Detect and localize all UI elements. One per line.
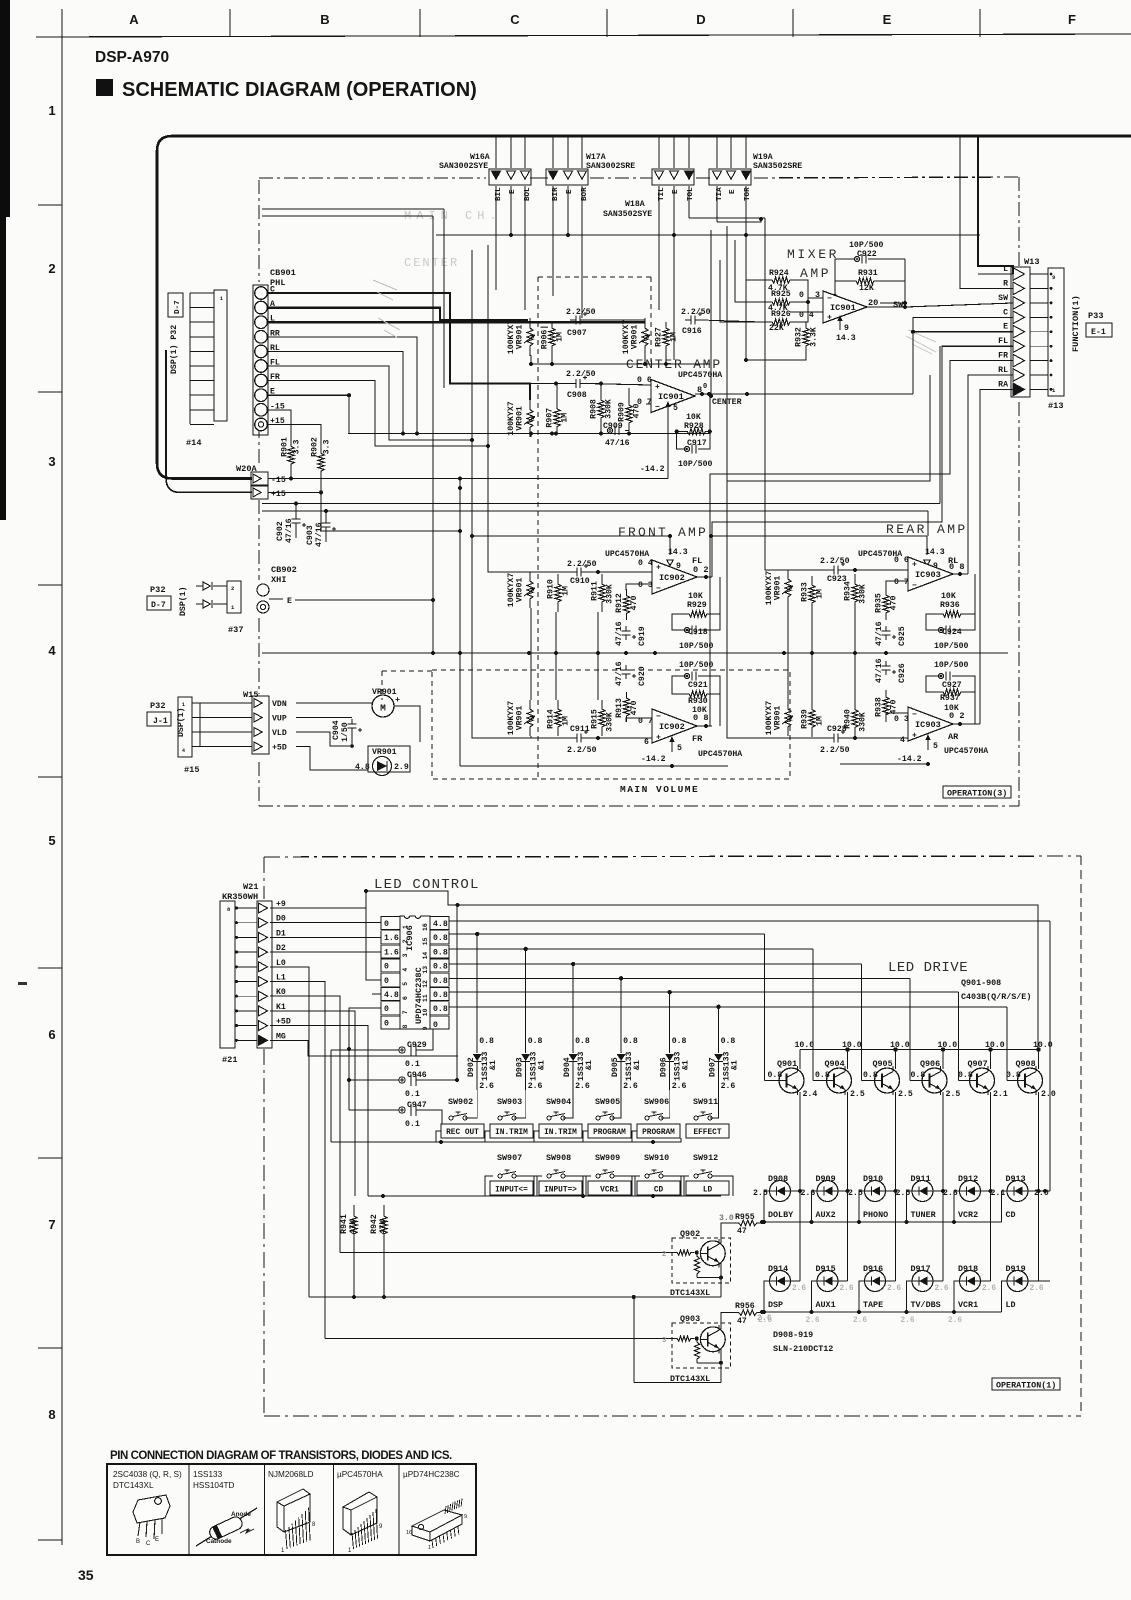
wire rear pot bottoms [787, 606, 789, 653]
dashed box MAIN VOLUME [432, 670, 790, 779]
svg-text:16: 16 [406, 1530, 412, 1536]
wire Q902 collector [721, 1223, 734, 1243]
svg-text:+: + [655, 383, 660, 392]
resistor R910 1M [555, 574, 561, 612]
svg-text:Q908: Q908 [1016, 1059, 1036, 1069]
svg-text:#13: #13 [1048, 401, 1063, 411]
wire +5D/MG bus verticals [456, 905, 458, 1080]
svg-text:2.2/50: 2.2/50 [567, 745, 597, 755]
svg-text:6: 6 [644, 738, 649, 747]
svg-text:0.8: 0.8 [433, 991, 448, 1000]
svg-text:0 4: 0 4 [638, 559, 653, 568]
capacitor C927 10P/500 [938, 673, 943, 678]
wire -15/+15 supply branch [166, 350, 252, 492]
svg-text:DSP(1): DSP(1) [176, 708, 186, 737]
svg-text:SW910: SW910 [644, 1153, 669, 1163]
svg-text:VR901: VR901 [516, 578, 525, 603]
svg-text:330K: 330K [605, 399, 614, 419]
wire rear amp RL [788, 569, 828, 571]
svg-text:R912: R912 [615, 593, 624, 613]
label P32 D-7 (to DSP(1)) [168, 293, 183, 317]
wire RL output to W13 [968, 375, 1013, 574]
svg-text:UPC4570HA: UPC4570HA [605, 550, 649, 559]
svg-text:47K: 47K [349, 1220, 358, 1235]
wire center output to W13 C/E [913, 317, 1013, 394]
svg-text:2.2/50: 2.2/50 [567, 559, 597, 569]
svg-text:SW909: SW909 [595, 1153, 620, 1163]
wire IC906 output buses [449, 933, 765, 935]
svg-text:47/16: 47/16 [605, 438, 630, 448]
svg-text:47/16: 47/16 [874, 621, 884, 646]
capacitor C911 2.2/50 [571, 737, 577, 739]
svg-text:&1: &1 [538, 1060, 547, 1070]
svg-text:10.0: 10.0 [842, 1041, 862, 1050]
svg-text:R931: R931 [858, 269, 878, 278]
svg-text:330K: 330K [606, 584, 615, 604]
svg-text:3: 3 [402, 953, 409, 957]
svg-text:RL: RL [998, 366, 1008, 375]
svg-text:DTC143XL: DTC143XL [113, 1481, 154, 1490]
svg-text:CB901: CB901 [270, 268, 296, 278]
pot VR901 100KYX7 (rear L) [785, 570, 791, 606]
svg-text:VDN: VDN [272, 700, 287, 709]
svg-text:0: 0 [384, 1005, 389, 1014]
wire emitter rail [800, 1049, 1038, 1051]
svg-text:Q905: Q905 [873, 1059, 893, 1069]
wire -15 / -14.2 run [268, 478, 668, 480]
wire verticals to rear section [673, 235, 675, 360]
svg-text:2.1: 2.1 [993, 1090, 1008, 1099]
svg-text:470: 470 [890, 596, 899, 611]
svg-text:2SC4038 (Q, R, S): 2SC4038 (Q, R, S) [113, 1470, 182, 1479]
svg-text:NJM2068LD: NJM2068LD [268, 1470, 314, 1479]
svg-text:2.6: 2.6 [479, 1082, 494, 1091]
svg-text:0 3: 0 3 [638, 581, 653, 590]
svg-text:2.4: 2.4 [803, 1090, 818, 1099]
svg-text:2.5: 2.5 [898, 1090, 913, 1099]
svg-text:2: 2 [48, 261, 55, 276]
svg-text:0: 0 [384, 977, 389, 986]
svg-text:SLN-210DCT12: SLN-210DCT12 [773, 1344, 833, 1354]
wire 4.8 line from IC906 pin16 [449, 920, 1050, 922]
svg-text:0 6: 0 6 [894, 556, 909, 565]
svg-text:E: E [672, 189, 680, 194]
resistor Q903 pull-down [694, 1339, 699, 1363]
svg-text:E: E [729, 189, 737, 194]
svg-text:D: D [696, 12, 705, 27]
svg-text:10.0: 10.0 [985, 1041, 1005, 1050]
svg-text:&1: &1 [585, 1060, 594, 1070]
svg-text:VCR2: VCR2 [958, 1210, 978, 1220]
svg-text:F: F [1068, 12, 1076, 27]
svg-text:EFFECT: EFFECT [693, 1129, 721, 1137]
svg-text:−: − [912, 711, 917, 720]
svg-text:C911: C911 [570, 725, 590, 734]
svg-text:11: 11 [422, 994, 429, 1002]
svg-text:C947: C947 [407, 1101, 427, 1110]
wire long cross runs upper [262, 208, 444, 210]
svg-text:VCR1: VCR1 [600, 1187, 619, 1195]
svg-text:VR901: VR901 [372, 748, 397, 757]
svg-text:#14: #14 [186, 438, 201, 448]
svg-text:2.6: 2.6 [982, 1285, 996, 1293]
svg-text:UPC4570HA: UPC4570HA [698, 750, 742, 759]
IC906 right pin boxes [430, 917, 449, 930]
svg-text:W19A: W19A [753, 153, 773, 162]
svg-text:0: 0 [799, 291, 804, 300]
svg-text:VR901: VR901 [516, 706, 525, 731]
svg-text:3.3: 3.3 [323, 440, 332, 455]
svg-text:D904: D904 [563, 1057, 572, 1077]
wire D908 row cathode bus [764, 1191, 770, 1222]
svg-text:C922: C922 [857, 250, 877, 259]
capacitor C902 47/16 [295, 515, 297, 519]
svg-text:Q902: Q902 [680, 1229, 700, 1239]
resistor R907 1M [554, 402, 560, 434]
svg-text:C: C [510, 12, 520, 27]
svg-text:SW911: SW911 [693, 1097, 718, 1107]
svg-text:REC OUT: REC OUT [446, 1129, 479, 1137]
svg-text:R926: R926 [771, 310, 791, 319]
svg-text:2.6: 2.6 [887, 1285, 901, 1293]
svg-text:C904: C904 [332, 720, 341, 740]
svg-text:2.5: 2.5 [753, 1189, 768, 1198]
svg-text:0: 0 [433, 1021, 438, 1030]
svg-text:R935: R935 [874, 593, 883, 613]
svg-text:0: 0 [384, 963, 389, 972]
svg-text:R: R [1003, 279, 1008, 288]
svg-text:1: 1 [182, 702, 185, 708]
diode D902 1SS133 [476, 934, 478, 1053]
svg-text:P32: P32 [150, 585, 165, 595]
svg-text:E: E [287, 597, 292, 606]
svg-text:P32: P32 [150, 701, 165, 711]
svg-text:1M: 1M [562, 586, 571, 596]
svg-text:10P/500: 10P/500 [679, 660, 713, 670]
svg-text:2.6: 2.6 [1030, 1285, 1044, 1293]
wire CB901 C run (to center amp row2) [268, 293, 531, 384]
wire center output run [695, 393, 913, 395]
resistor R942 47K [381, 1205, 387, 1245]
wire mixer input feeds [746, 235, 762, 280]
svg-text:E: E [155, 1537, 159, 1543]
diode D903 1SS133 [525, 949, 527, 1053]
wire LED control row buses [309, 1296, 634, 1298]
pot VR901 100KYX7 (center L) [527, 318, 533, 356]
svg-text:D903: D903 [516, 1057, 525, 1077]
svg-text:CB902: CB902 [271, 565, 297, 575]
svg-text:-15: -15 [271, 476, 286, 485]
svg-text:330K: 330K [859, 712, 868, 732]
svg-text:4: 4 [402, 968, 409, 972]
svg-text:R937: R937 [940, 694, 960, 703]
svg-text:CENTER: CENTER [404, 256, 459, 270]
op-amp IC903 (RL) [908, 557, 953, 591]
svg-text:IC901: IC901 [658, 392, 684, 402]
svg-text:C920: C920 [638, 666, 647, 686]
svg-text:0.1: 0.1 [405, 1090, 420, 1099]
svg-text:R939: R939 [800, 709, 809, 729]
svg-text:14: 14 [422, 952, 429, 960]
svg-text:10K: 10K [941, 592, 956, 601]
wire IC906 left lower pins [366, 908, 381, 980]
svg-text:0.8: 0.8 [479, 1037, 494, 1046]
svg-text:C907: C907 [567, 329, 587, 338]
wire RA output to W13 [980, 389, 1013, 724]
svg-text:SW: SW [998, 294, 1008, 303]
op-amp IC902 (FL) [652, 560, 697, 594]
resistor Q902 pull-down [694, 1253, 699, 1278]
power arrow rear 9 [924, 560, 930, 566]
resistor R932 3.3K [803, 322, 809, 352]
svg-text:LD: LD [703, 1187, 713, 1195]
svg-text:2: 2 [402, 939, 409, 943]
svg-text:A: A [129, 12, 139, 27]
wire front amp input feeds [417, 434, 508, 572]
capacitor C925 47/16 [885, 626, 887, 631]
svg-text:TOL: TOL [687, 187, 695, 201]
svg-text:&1: &1 [731, 1060, 740, 1070]
svg-text:FR: FR [692, 734, 703, 744]
svg-text:2.6: 2.6 [935, 1285, 949, 1293]
svg-text:2.5: 2.5 [850, 1090, 865, 1099]
svg-text:VCR1: VCR1 [958, 1300, 978, 1310]
svg-text:UPC4570HA: UPC4570HA [944, 747, 988, 756]
svg-text:3.3: 3.3 [293, 440, 302, 455]
power arrow front 9 [667, 560, 673, 566]
capacitor C947 0.1 [399, 1107, 405, 1113]
wire mixer feedback [835, 259, 845, 281]
svg-text:R932: R932 [794, 327, 803, 347]
connector W19A (right half) [709, 169, 751, 185]
svg-text:Q901-908: Q901-908 [961, 978, 1001, 988]
svg-text:5: 5 [933, 742, 938, 751]
wire front pot bottoms [555, 612, 557, 653]
svg-text:SW903: SW903 [497, 1097, 522, 1107]
svg-text:C: C [146, 1541, 151, 1547]
svg-text:#21: #21 [222, 1055, 237, 1065]
svg-text:0.8: 0.8 [721, 1037, 736, 1046]
svg-text:VR901: VR901 [516, 406, 525, 431]
svg-text:C902: C902 [276, 521, 285, 541]
svg-text:FRONT AMP: FRONT AMP [618, 525, 708, 540]
svg-text:0.8: 0.8 [528, 1037, 543, 1046]
svg-text:VR901: VR901 [774, 706, 783, 731]
svg-text:SW908: SW908 [546, 1153, 571, 1163]
svg-text:10.0: 10.0 [1033, 1041, 1053, 1050]
svg-text:10K: 10K [686, 413, 701, 422]
svg-text:0 6: 0 6 [637, 376, 652, 385]
svg-text:UPC4570HA: UPC4570HA [678, 371, 722, 380]
svg-text:PROGRAM: PROGRAM [593, 1129, 626, 1137]
svg-text:+5D: +5D [272, 744, 287, 753]
svg-text:10P/500: 10P/500 [849, 240, 883, 250]
wire +9 rail feed [458, 905, 1038, 1050]
svg-text:10P/500: 10P/500 [934, 641, 968, 651]
svg-text:2.1: 2.1 [991, 1189, 1006, 1198]
svg-text:C917: C917 [687, 439, 707, 448]
capacitor C918 10P/500 [684, 627, 689, 632]
op-amp IC903 (AR) [908, 707, 953, 741]
svg-text:LED DRIVE: LED DRIVE [888, 960, 968, 976]
svg-text:R941: R941 [340, 1214, 349, 1234]
svg-text:2.2/50: 2.2/50 [820, 556, 850, 566]
svg-text:0.8: 0.8 [433, 1005, 448, 1014]
svg-text:9: 9 [464, 1514, 467, 1520]
svg-text:W17A: W17A [586, 153, 606, 162]
package drawing NJM2068LD [277, 1489, 310, 1532]
resistor R940 330K [852, 700, 858, 737]
svg-text:2.6: 2.6 [853, 1317, 867, 1325]
svg-text:47/16: 47/16 [314, 522, 324, 547]
svg-text:REAR AMP: REAR AMP [886, 522, 968, 537]
svg-text:0: 0 [384, 1019, 389, 1028]
svg-text:AMP: AMP [800, 266, 831, 281]
svg-text:1: 1 [220, 296, 223, 302]
capacitor C919 47/16 [625, 626, 627, 631]
svg-text:TV/DBS: TV/DBS [911, 1300, 941, 1310]
svg-text:9: 9 [422, 1026, 429, 1030]
svg-text:C916: C916 [682, 327, 702, 336]
svg-text:C946: C946 [407, 1071, 427, 1080]
svg-text:35: 35 [78, 1567, 94, 1583]
svg-text:2: 2 [231, 585, 234, 592]
svg-text:C925: C925 [898, 626, 907, 646]
svg-text:FUNCTION(1): FUNCTION(1) [1071, 295, 1081, 352]
svg-text:SW: SW [893, 300, 904, 310]
svg-text:14.3: 14.3 [668, 548, 688, 557]
svg-text:2.0: 2.0 [1041, 1090, 1056, 1099]
wire front amp FL [531, 571, 571, 573]
svg-text:0 7: 0 7 [894, 578, 909, 587]
svg-text:+: + [912, 732, 917, 741]
svg-text:1M: 1M [561, 413, 570, 423]
svg-text:TAPE: TAPE [863, 1300, 883, 1310]
svg-text:VR901: VR901 [631, 325, 640, 350]
svg-text:0: 0 [384, 920, 389, 929]
svg-text:4: 4 [182, 748, 185, 754]
wire vertical bus left-center [432, 290, 434, 318]
diode D906 1SS133 [669, 992, 671, 1053]
IC IC906 UPD74HC238C [400, 916, 430, 1029]
wire CB901 RR/RL nest [268, 337, 417, 434]
capacitor C909 47/16 [607, 428, 612, 433]
svg-text:3.3K: 3.3K [810, 327, 819, 347]
wire CB901 A run (to center amp row1) [268, 308, 528, 320]
svg-text:IC901: IC901 [830, 303, 856, 313]
svg-text:2.2/50: 2.2/50 [566, 307, 596, 317]
svg-text:DSP(1): DSP(1) [178, 587, 188, 616]
svg-text:C928: C928 [827, 725, 847, 734]
wire signal drops from connector strips [495, 186, 497, 290]
wire D914 row anode connections [791, 1280, 801, 1282]
svg-text:7: 7 [48, 1217, 55, 1232]
svg-text:R902: R902 [311, 437, 320, 457]
svg-text:1.6: 1.6 [384, 948, 399, 957]
svg-text:D-7: D-7 [151, 601, 166, 610]
svg-text:0 2: 0 2 [693, 565, 708, 575]
svg-text:C921: C921 [688, 681, 708, 690]
svg-text:W15: W15 [243, 690, 258, 700]
svg-text:B: B [320, 12, 329, 27]
resistor R915 330K [599, 700, 605, 736]
wire mixer input nodes [800, 280, 808, 302]
svg-text:2.2/50: 2.2/50 [820, 745, 850, 755]
svg-text:0.1: 0.1 [405, 1060, 420, 1069]
package drawing uPD74HC238C [412, 1510, 462, 1541]
resistor R912 470 [623, 589, 629, 620]
svg-text:15: 15 [422, 937, 429, 945]
svg-text:E: E [1003, 323, 1008, 332]
svg-text:C910: C910 [570, 577, 590, 586]
svg-text:+: + [395, 695, 400, 705]
svg-text:2.6: 2.6 [901, 1317, 915, 1325]
svg-text:6: 6 [48, 1027, 55, 1042]
svg-text:CD: CD [654, 1187, 664, 1195]
svg-text:Q903: Q903 [680, 1314, 700, 1324]
svg-text:IC902: IC902 [659, 573, 685, 583]
capacitor C904 1/50 [351, 719, 353, 724]
svg-text:R942: R942 [370, 1214, 379, 1234]
svg-text:10.0: 10.0 [890, 1041, 910, 1050]
diode D907 1SS133 [718, 1007, 720, 1053]
svg-text:47: 47 [737, 1317, 747, 1326]
wire long cross runs mid (supply rails) [262, 503, 940, 505]
svg-text:2.2/50: 2.2/50 [681, 307, 711, 317]
svg-text:P33: P33 [1088, 311, 1103, 321]
svg-text:5: 5 [677, 744, 682, 753]
wire rear amp input feeds [765, 218, 788, 570]
wire misc verticals [710, 230, 712, 396]
svg-text:47K: 47K [379, 1220, 388, 1235]
svg-text:0.8: 0.8 [672, 1037, 687, 1046]
resistor R939 1M [809, 700, 815, 737]
svg-text:Q907: Q907 [968, 1059, 988, 1069]
wire center amp row1 [586, 319, 637, 321]
svg-text:SW906: SW906 [644, 1097, 669, 1107]
svg-text:D902: D902 [467, 1057, 476, 1077]
svg-text:+: + [827, 314, 832, 323]
svg-text:J-1: J-1 [153, 717, 168, 726]
svg-text:OPERATION(3): OPERATION(3) [947, 789, 1007, 799]
svg-text:-14.2: -14.2 [897, 755, 922, 764]
svg-text:5: 5 [673, 404, 678, 413]
svg-text:Cathode: Cathode [206, 1538, 232, 1545]
svg-text:µPC4570HA: µPC4570HA [337, 1470, 383, 1479]
svg-text:470: 470 [890, 700, 899, 715]
svg-text:2.9: 2.9 [394, 763, 409, 772]
wire Q903 collector [721, 1313, 734, 1329]
svg-text:R936: R936 [940, 601, 960, 610]
svg-text:SW904: SW904 [546, 1097, 571, 1107]
svg-text:+: + [656, 734, 661, 743]
svg-text:0.8: 0.8 [433, 934, 448, 943]
svg-text:CD: CD [1006, 1210, 1016, 1220]
svg-text:3: 3 [48, 454, 55, 469]
wire front amp FR [531, 737, 571, 739]
svg-text:2.6: 2.6 [575, 1082, 590, 1091]
svg-text:SAN3002SYE: SAN3002SYE [439, 162, 488, 171]
svg-text:DSP(1) P32: DSP(1) P32 [169, 325, 179, 374]
svg-text:B: B [136, 1539, 140, 1545]
svg-text:M: M [380, 703, 386, 714]
svg-text:VR901: VR901 [774, 576, 783, 601]
svg-text:1/50: 1/50 [340, 722, 350, 742]
svg-text:Q901: Q901 [777, 1059, 797, 1069]
svg-text:12: 12 [422, 980, 429, 988]
capacitor C903 47/16 [325, 519, 327, 523]
svg-text:DSP-A970: DSP-A970 [95, 49, 169, 66]
